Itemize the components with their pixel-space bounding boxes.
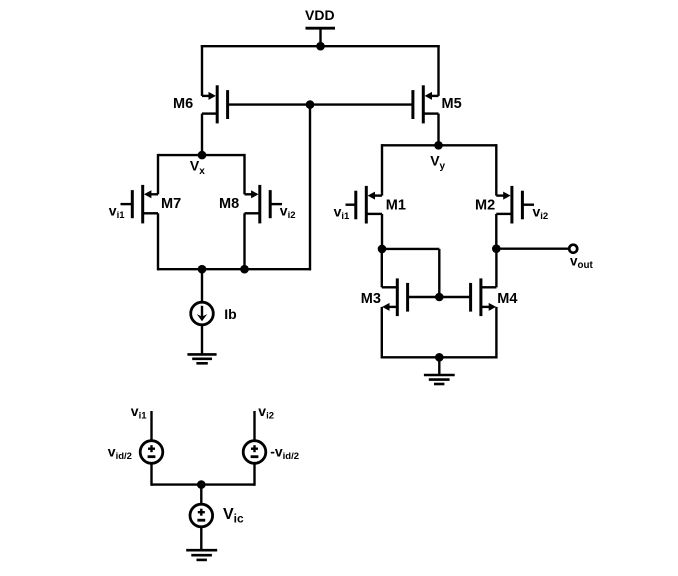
wire top supply rail (201, 45, 203, 96)
ground (left) (187, 354, 216, 363)
wire -vid/2 to rail (253, 464, 255, 486)
transistor M5 body (413, 85, 439, 123)
svg-text:M4: M4 (497, 291, 517, 307)
svg-text:M2: M2 (475, 198, 495, 214)
node M1 drain (378, 245, 387, 254)
transistor M1 body (346, 186, 383, 224)
transistor M6 body (202, 85, 228, 123)
svg-text:M8: M8 (219, 196, 239, 212)
svg-text:M6: M6 (173, 96, 193, 112)
wire Vx rail (158, 154, 245, 156)
wire M8 drain down (243, 213, 245, 270)
svg-text:M5: M5 (442, 96, 462, 112)
node tail junction (198, 265, 207, 274)
wire output (496, 247, 568, 249)
transistor M2 body (496, 186, 534, 224)
node Vx (198, 151, 207, 160)
wire M1 drain down (381, 214, 383, 249)
wire gate junction down to left pair drains (309, 105, 311, 271)
wire source rail (152, 483, 255, 485)
wire ground stub (438, 357, 440, 375)
wire VDD stub (319, 28, 321, 46)
ground (sources) (186, 550, 217, 560)
svg-text:Ib: Ib (224, 306, 236, 322)
wire vi2 input lead (253, 411, 255, 440)
wire M6 drain to Vx (201, 114, 203, 157)
node M8 drain junction (240, 265, 249, 274)
wire vid/2 to rail (150, 464, 152, 486)
node ground junction (435, 353, 444, 362)
voltage source vid/2 (140, 441, 163, 464)
transistor M8 body (245, 185, 283, 224)
wire mirror ground rail (382, 356, 497, 358)
wire to current source Ib (201, 269, 203, 302)
wire vi1 input lead (150, 411, 152, 440)
ground (mirror) (424, 375, 455, 384)
wire left pair bottom rail (158, 268, 311, 270)
wire M3 drain up (381, 249, 383, 287)
wire M5 drain to Vy (437, 114, 439, 147)
wire M7 drain down (157, 213, 159, 270)
svg-text:M7: M7 (161, 196, 181, 212)
wire to Vic (200, 485, 202, 504)
svg-text:VDD: VDD (305, 7, 335, 23)
node VDD junction (316, 42, 325, 51)
node mirror gate junction (435, 293, 444, 302)
voltage source -vid/2 (243, 441, 266, 464)
wire Vy rail (382, 144, 496, 146)
power symbol VDD bar (306, 27, 336, 30)
terminal vout (569, 245, 577, 253)
current source Ib (191, 302, 214, 325)
voltage source Vic (190, 504, 213, 527)
wire Ib to ground (201, 325, 203, 354)
transistor M3 body (382, 278, 440, 316)
transistor M4 body (439, 278, 496, 316)
wire gate line M6-M5 (228, 103, 413, 105)
wire M1 drain to mirror gate (382, 248, 439, 250)
svg-text:M1: M1 (386, 198, 406, 214)
wire M4 drain up (495, 249, 497, 288)
wire Vic to ground (200, 527, 202, 550)
node M2 drain (492, 244, 501, 253)
node common source junction (197, 480, 206, 489)
transistor M7 body (121, 185, 159, 224)
wire M4 source down (495, 307, 497, 359)
wire M3 source down (381, 307, 383, 359)
node Vy (434, 141, 443, 150)
node gate junction (306, 100, 315, 109)
wire M2 drain down (495, 214, 497, 249)
svg-text:M3: M3 (361, 291, 381, 307)
